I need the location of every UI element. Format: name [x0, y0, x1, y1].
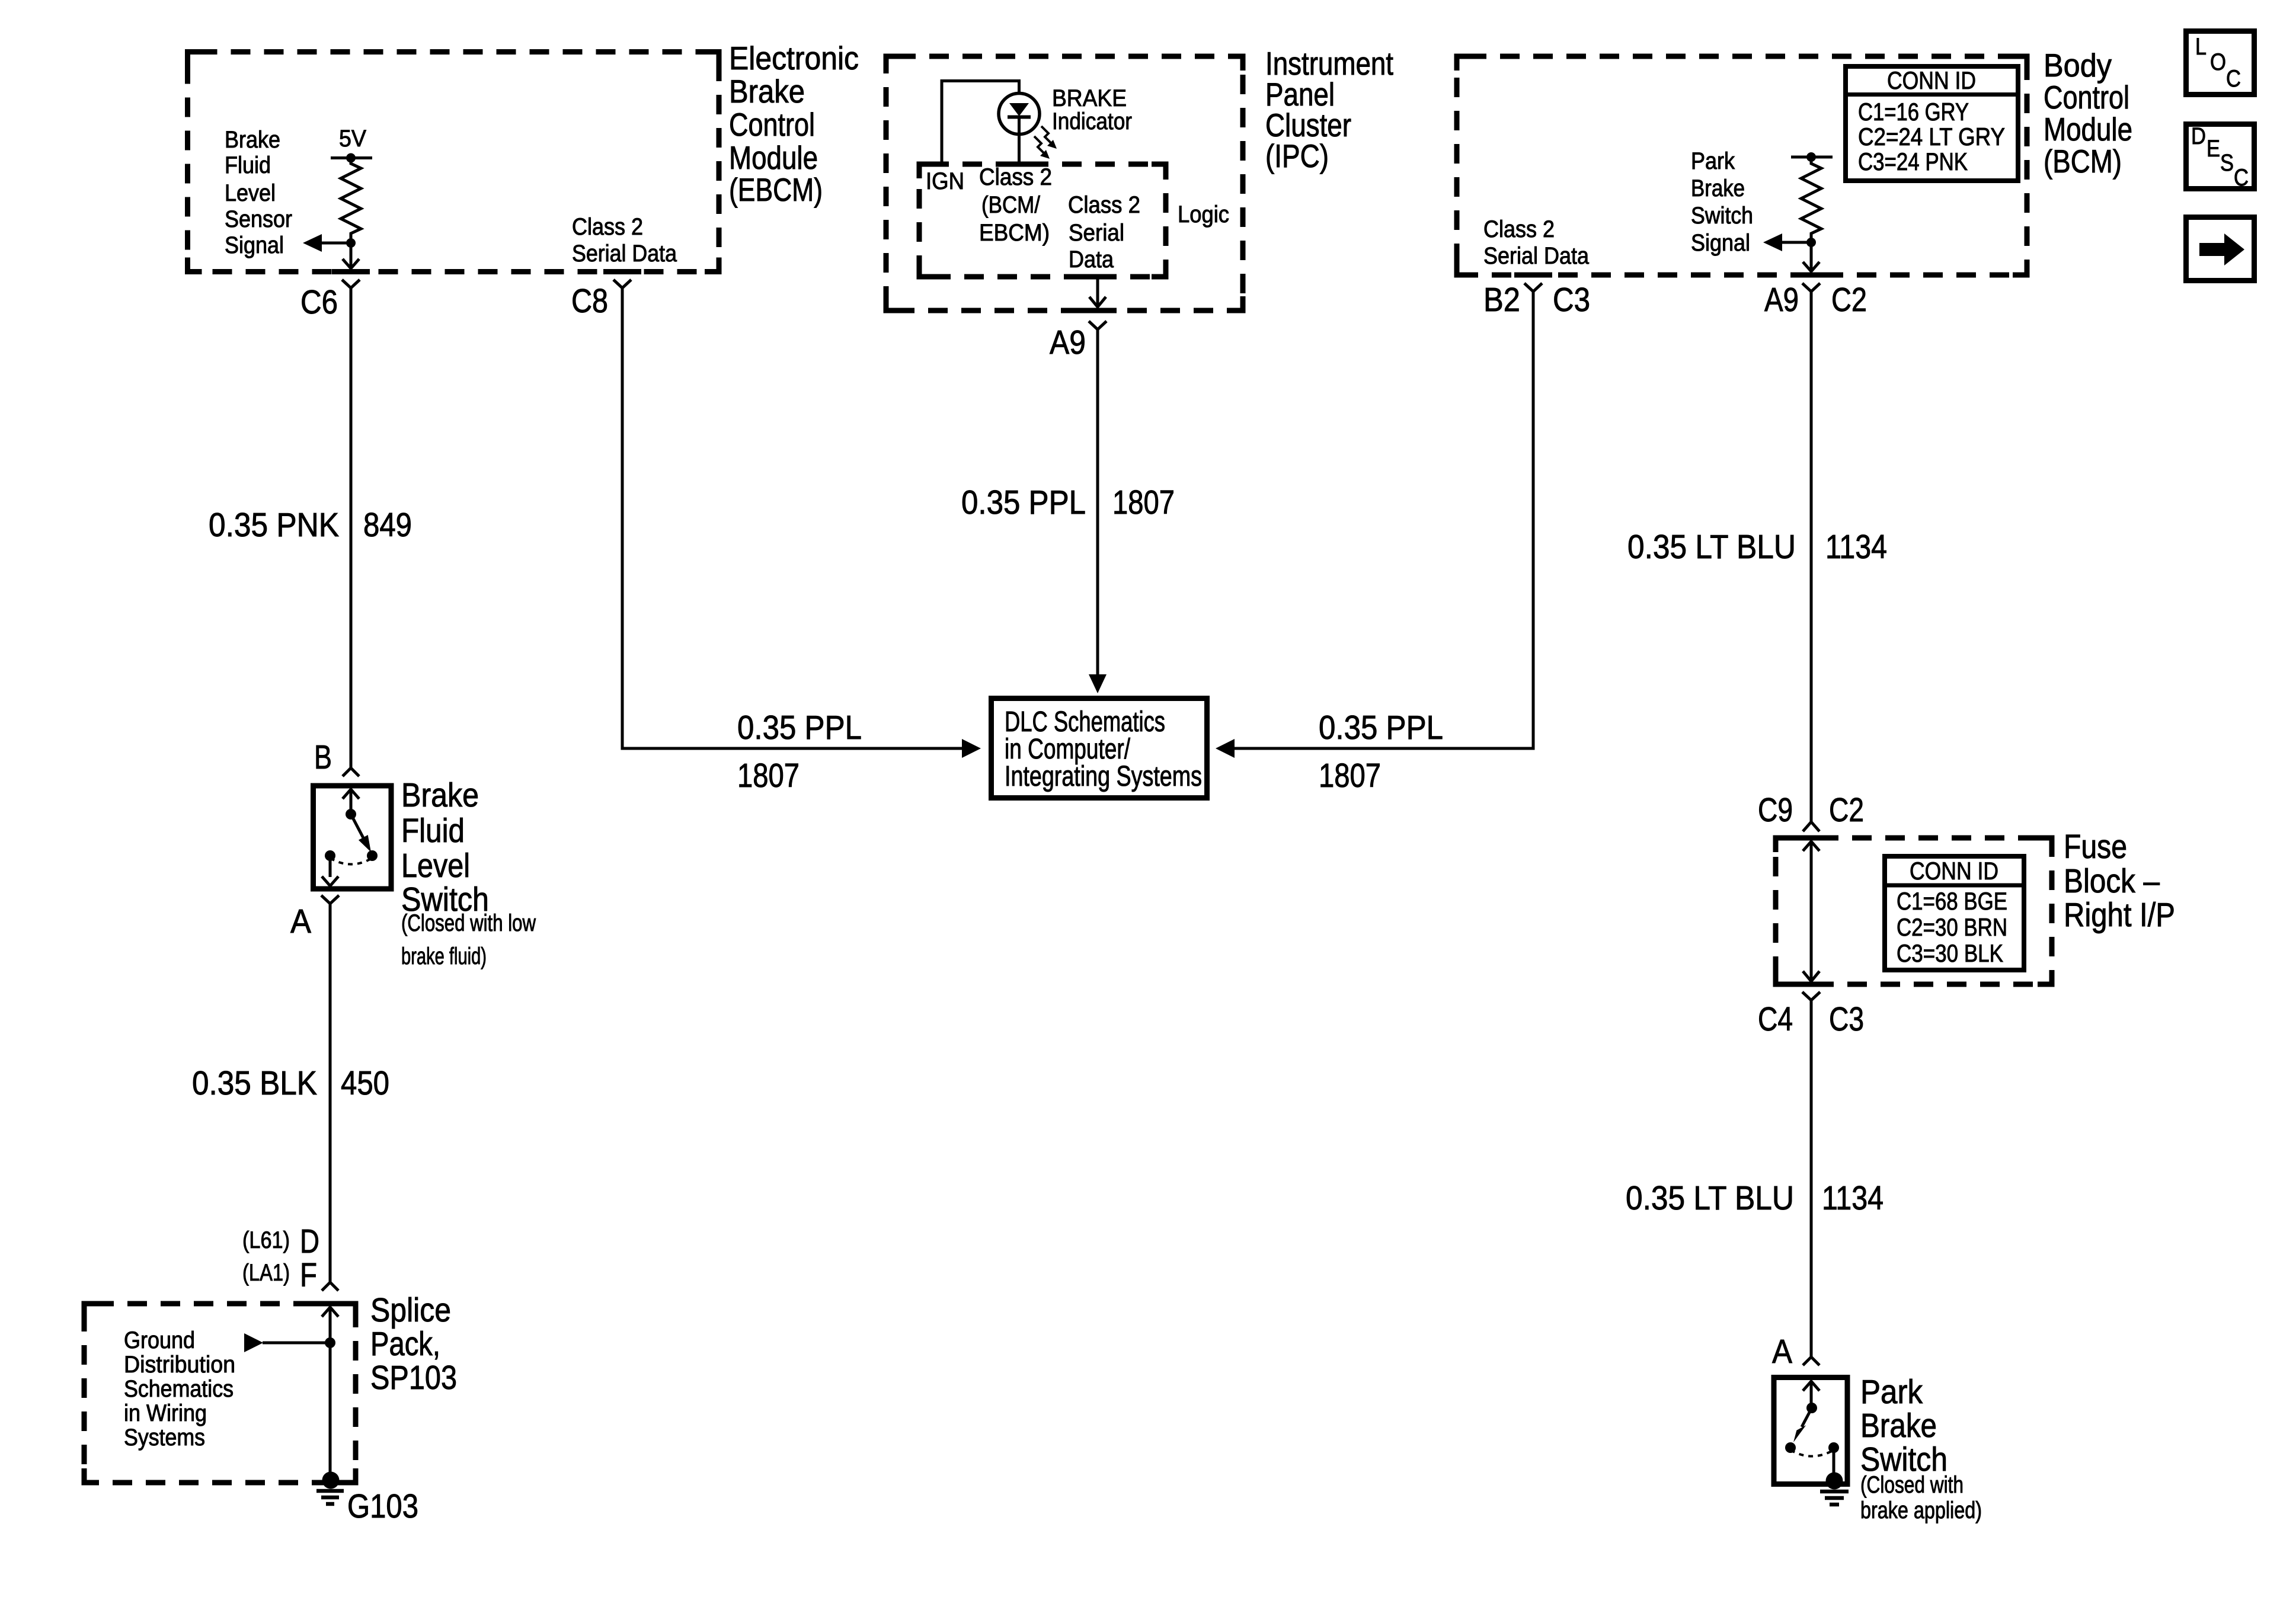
- svg-text:S: S: [2220, 150, 2234, 176]
- arrow splice feed points right: [244, 1333, 263, 1352]
- svg-text:Level: Level: [401, 847, 470, 885]
- svg-text:(LA1): (LA1): [242, 1260, 290, 1286]
- svg-text:(IPC): (IPC): [1265, 137, 1329, 174]
- svg-text:Logic: Logic: [1178, 201, 1229, 228]
- svg-text:(EBCM): (EBCM): [729, 171, 823, 208]
- connector C8 female fork: [613, 280, 631, 288]
- svg-text:Class 2: Class 2: [572, 214, 643, 240]
- connector C4 female fork: [1802, 992, 1820, 1000]
- svg-text:A9: A9: [1050, 324, 1086, 361]
- wire contact to ground: [1833, 1448, 1835, 1474]
- LED diode triangle: [1009, 103, 1029, 116]
- ground park hatches: [1820, 1490, 1849, 1494]
- arrow male up at fuse box top: [1803, 841, 1819, 851]
- edge dash at fuse box bottom: [1792, 982, 1830, 987]
- svg-text:D: D: [2191, 123, 2206, 149]
- node sensor-signal junction dot: [346, 238, 356, 248]
- svg-text:B2: B2: [1483, 281, 1520, 319]
- svg-text:Integrating Systems: Integrating Systems: [1005, 761, 1202, 792]
- BCM module dashed box: [1457, 56, 2027, 275]
- wire A9 exit inside BCM: [1810, 242, 1813, 271]
- svg-text:Signal: Signal: [225, 232, 284, 258]
- edge dash under A9 IPC: [1079, 308, 1117, 313]
- node 5V junction dot: [346, 153, 356, 163]
- ground G103 hatches: [316, 1489, 344, 1493]
- svg-text:Schematics: Schematics: [124, 1376, 234, 1402]
- resistor R BCM pull-up: [1801, 157, 1821, 242]
- svg-text:C9: C9: [1758, 791, 1793, 829]
- svg-text:O: O: [2210, 49, 2226, 75]
- svg-text:L: L: [2195, 34, 2207, 60]
- svg-text:Data: Data: [1069, 247, 1114, 273]
- ground park dot: [1826, 1473, 1843, 1490]
- svg-text:Fluid: Fluid: [401, 812, 465, 850]
- svg-text:1807: 1807: [737, 757, 800, 795]
- light ray arrow 1: [1041, 126, 1051, 143]
- svg-text:IGN: IGN: [926, 168, 964, 194]
- edge dash at logic box top LED wire: [1000, 162, 1038, 167]
- svg-text:A: A: [290, 902, 311, 940]
- LED diode bar: [1008, 116, 1031, 119]
- wire splice pack vertical: [329, 1307, 332, 1477]
- svg-text:Level: Level: [225, 180, 276, 206]
- svg-text:Switch: Switch: [1691, 203, 1753, 229]
- wire A9 to fuse block: [1810, 292, 1813, 822]
- svg-text:CONN ID: CONN ID: [1887, 66, 1976, 94]
- svg-text:Fuse: Fuse: [2064, 828, 2127, 866]
- svg-text:BRAKE: BRAKE: [1052, 85, 1127, 111]
- svg-text:brake applied): brake applied): [1860, 1497, 1982, 1523]
- arrow male down at switch A terminal: [322, 876, 338, 886]
- ground distribution dashed box: [84, 1304, 356, 1483]
- svg-text:849: 849: [363, 506, 412, 544]
- svg-text:C2: C2: [1831, 281, 1867, 319]
- svg-text:0.35 LT BLU: 0.35 LT BLU: [1626, 1179, 1794, 1217]
- wire signal stub: [321, 242, 351, 245]
- svg-text:0.35 PPL: 0.35 PPL: [737, 709, 862, 747]
- LED circle: [999, 94, 1040, 135]
- wire contact A down: [329, 856, 332, 877]
- arrow male down at IPC edge: [1089, 297, 1106, 307]
- svg-text:G103: G103: [347, 1487, 418, 1525]
- node park contact right dot: [1828, 1442, 1839, 1453]
- svg-text:C2=24 LT GRY: C2=24 LT GRY: [1858, 123, 2005, 151]
- connector B2 female fork: [1524, 283, 1542, 292]
- DESC legend box: [2186, 124, 2255, 189]
- svg-text:Block –: Block –: [2064, 862, 2160, 900]
- EBCM module dashed box: [188, 52, 720, 272]
- arrow park-brake-signal points left: [1763, 233, 1782, 251]
- svg-text:450: 450: [341, 1064, 389, 1102]
- wire C4 to park brake switch: [1810, 1000, 1813, 1357]
- svg-text:Indicator: Indicator: [1052, 108, 1132, 135]
- svg-text:C3=30 BLK: C3=30 BLK: [1897, 939, 2003, 967]
- svg-text:Serial Data: Serial Data: [572, 241, 677, 267]
- svg-text:Right I/P: Right I/P: [2064, 896, 2175, 934]
- node splice junction dot: [325, 1337, 335, 1348]
- svg-text:0.35 LT BLU: 0.35 LT BLU: [1627, 528, 1796, 566]
- svg-text:C2: C2: [1829, 791, 1864, 829]
- dashed box corner ticks: [84, 52, 2052, 1483]
- arrow sensor-signal points left: [303, 234, 322, 252]
- svg-text:1807: 1807: [1112, 484, 1175, 521]
- svg-text:1134: 1134: [1822, 1179, 1884, 1217]
- LOC legend box: [2186, 31, 2255, 95]
- svg-text:(Closed with low: (Closed with low: [401, 910, 536, 936]
- svg-text:Sensor: Sensor: [225, 206, 292, 232]
- arrow into DLC right points left: [1216, 739, 1235, 758]
- svg-text:A9: A9: [1764, 281, 1799, 319]
- conn-id table BCM: [1846, 66, 2018, 181]
- arrow male up at park brake A terminal: [1803, 1381, 1819, 1391]
- connector B female fork: [343, 768, 359, 776]
- svg-text:Control: Control: [729, 106, 815, 143]
- switch box brake fluid level: [314, 786, 392, 889]
- svg-text:Class 2: Class 2: [1068, 192, 1140, 218]
- svg-text:C6: C6: [300, 283, 338, 321]
- svg-text:F: F: [300, 1256, 317, 1294]
- svg-text:Systems: Systems: [124, 1425, 205, 1451]
- svg-text:5V: 5V: [339, 126, 366, 152]
- connector A9 female fork: [1089, 321, 1107, 329]
- wire C8 down and right to DLC: [622, 288, 962, 748]
- svg-text:Module: Module: [729, 139, 818, 176]
- svg-text:0.35 PPL: 0.35 PPL: [1319, 709, 1443, 747]
- svg-text:Splice: Splice: [370, 1291, 451, 1329]
- wire LED anode down to logic box: [1018, 117, 1021, 164]
- arrow male up at splice pack: [322, 1307, 338, 1317]
- IPC module dashed box: [886, 56, 1243, 311]
- svg-text:Brake: Brake: [1860, 1407, 1937, 1445]
- svg-text:D: D: [300, 1222, 319, 1260]
- arrow male down at fuse box bottom: [1803, 971, 1819, 981]
- svg-text:C3: C3: [1829, 1000, 1864, 1038]
- edge dash under A9 BCM: [1792, 273, 1830, 278]
- svg-text:brake fluid): brake fluid): [401, 943, 487, 969]
- svg-text:1807: 1807: [1319, 757, 1381, 795]
- IPC logic inner dashed box: [919, 164, 1166, 277]
- arrow into DLC top points down: [1089, 674, 1107, 693]
- wire splice lateral: [263, 1342, 330, 1345]
- svg-text:Class 2: Class 2: [979, 164, 1052, 190]
- switch arm park brake with arrowhead: [1802, 1408, 1812, 1427]
- svg-text:(BCM/: (BCM/: [981, 192, 1041, 218]
- svg-text:Serial: Serial: [1069, 220, 1124, 246]
- arrow legend glyph: [2199, 233, 2244, 265]
- edge dash under C8: [603, 269, 641, 274]
- edge dash at fuse box top: [1792, 836, 1830, 841]
- svg-text:CONN ID: CONN ID: [1910, 857, 1998, 885]
- svg-text:0.35 BLK: 0.35 BLK: [192, 1064, 317, 1102]
- svg-text:Module: Module: [2044, 111, 2132, 148]
- wire BCM signal stub: [1782, 241, 1811, 244]
- wire C6 exit inside EBCM: [350, 243, 353, 268]
- conn-id table fuse block: [1885, 856, 2024, 970]
- edge dash at logic box bottom A9: [1079, 274, 1117, 280]
- svg-text:C1=16 GRY: C1=16 GRY: [1858, 98, 1969, 126]
- svg-text:A: A: [1772, 1333, 1792, 1371]
- arrow male down at EBCM edge: [343, 259, 359, 268]
- wire C6 to B: [350, 288, 353, 768]
- resistor R EBCM pull-up: [341, 158, 361, 244]
- svg-text:Ground: Ground: [124, 1327, 195, 1353]
- arrow legend box: [2186, 217, 2255, 281]
- node park contact left dot: [1785, 1442, 1796, 1453]
- connector A9-C2 female fork: [1802, 283, 1820, 292]
- edge dash under C6: [332, 269, 370, 274]
- node switch contact right dot: [367, 850, 378, 861]
- svg-text:Pack,: Pack,: [370, 1325, 440, 1363]
- svg-text:Brake: Brake: [225, 127, 280, 153]
- ground G103 dot: [322, 1472, 340, 1489]
- svg-text:1134: 1134: [1825, 528, 1887, 566]
- wire A9 to DLC: [1096, 329, 1099, 675]
- connector A park-brake female fork: [1803, 1357, 1819, 1365]
- svg-text:0.35 PNK: 0.35 PNK: [209, 506, 339, 544]
- edge dash at ground box top: [311, 1301, 349, 1307]
- switch box park brake: [1774, 1378, 1847, 1484]
- svg-text:Brake: Brake: [401, 776, 479, 814]
- svg-text:C4: C4: [1758, 1000, 1793, 1038]
- svg-text:(Closed with: (Closed with: [1860, 1472, 1964, 1498]
- connector A female fork: [321, 895, 339, 904]
- svg-text:B: B: [314, 738, 332, 776]
- wire A to splice pack: [329, 904, 332, 1282]
- svg-text:Control: Control: [2044, 79, 2129, 116]
- svg-text:0.35 PPL: 0.35 PPL: [961, 484, 1086, 521]
- node 5V tick: [331, 156, 372, 159]
- arrow male down at BCM edge: [1803, 262, 1819, 271]
- svg-text:Fluid: Fluid: [225, 152, 271, 178]
- svg-text:C: C: [2226, 66, 2241, 92]
- wire B2 down and left to DLC: [1234, 292, 1533, 748]
- svg-text:C8: C8: [571, 282, 608, 320]
- dashed travel arc park: [1790, 1450, 1834, 1457]
- svg-text:(BCM): (BCM): [2044, 143, 2122, 180]
- svg-text:Class 2: Class 2: [1483, 216, 1555, 242]
- wire B terminal to pivot: [350, 789, 353, 814]
- node BCM signal junction dot: [1806, 238, 1816, 247]
- switch arm with arrowhead: [351, 814, 363, 838]
- wire A9 inside IPC: [1096, 277, 1099, 306]
- edge dash under B2: [1514, 273, 1552, 278]
- svg-text:in Wiring: in Wiring: [124, 1400, 207, 1426]
- wire through fuse box: [1810, 841, 1813, 981]
- svg-text:Park: Park: [1691, 148, 1735, 174]
- connector C9 female fork: [1803, 822, 1819, 831]
- node switch pivot dot: [346, 809, 356, 820]
- node park brake pivot dot: [1806, 1403, 1817, 1413]
- wire park brake A to pivot: [1810, 1381, 1813, 1408]
- wire LED loop: [942, 81, 1019, 165]
- svg-text:E: E: [2207, 136, 2220, 162]
- svg-text:C1=68 BGE: C1=68 BGE: [1897, 887, 2007, 915]
- svg-text:Park: Park: [1860, 1373, 1923, 1411]
- connector F female fork: [322, 1282, 338, 1291]
- svg-text:EBCM): EBCM): [979, 220, 1050, 246]
- svg-text:(L61): (L61): [242, 1227, 290, 1253]
- svg-text:Distribution: Distribution: [124, 1352, 235, 1378]
- svg-text:C3: C3: [1553, 281, 1590, 319]
- node BCM tick junction dot: [1806, 152, 1816, 162]
- svg-text:Body: Body: [2044, 47, 2112, 84]
- svg-text:Signal: Signal: [1691, 230, 1750, 256]
- connector C6 female fork: [342, 280, 360, 288]
- svg-text:Electronic: Electronic: [729, 40, 859, 76]
- light ray arrow 2: [1034, 136, 1044, 153]
- edge dash at ground box bottom: [312, 1480, 350, 1486]
- svg-text:C: C: [2234, 165, 2249, 191]
- svg-text:Serial Data: Serial Data: [1483, 243, 1590, 269]
- svg-text:C2=30 BRN: C2=30 BRN: [1897, 913, 2007, 941]
- svg-text:Brake: Brake: [729, 73, 805, 110]
- DLC schematics solid box: [992, 699, 1207, 798]
- arrow male up at switch B terminal: [343, 789, 359, 799]
- svg-text:SP103: SP103: [370, 1359, 457, 1397]
- node switch contact A dot: [325, 850, 335, 861]
- svg-text:C3=24 PNK: C3=24 PNK: [1858, 148, 1968, 175]
- arrow into DLC left points right: [962, 739, 981, 758]
- svg-text:Brake: Brake: [1691, 175, 1745, 201]
- fuse block dashed box: [1776, 838, 2052, 984]
- node BCM 5V tick: [1791, 156, 1833, 159]
- dashed travel arc: [330, 858, 372, 865]
